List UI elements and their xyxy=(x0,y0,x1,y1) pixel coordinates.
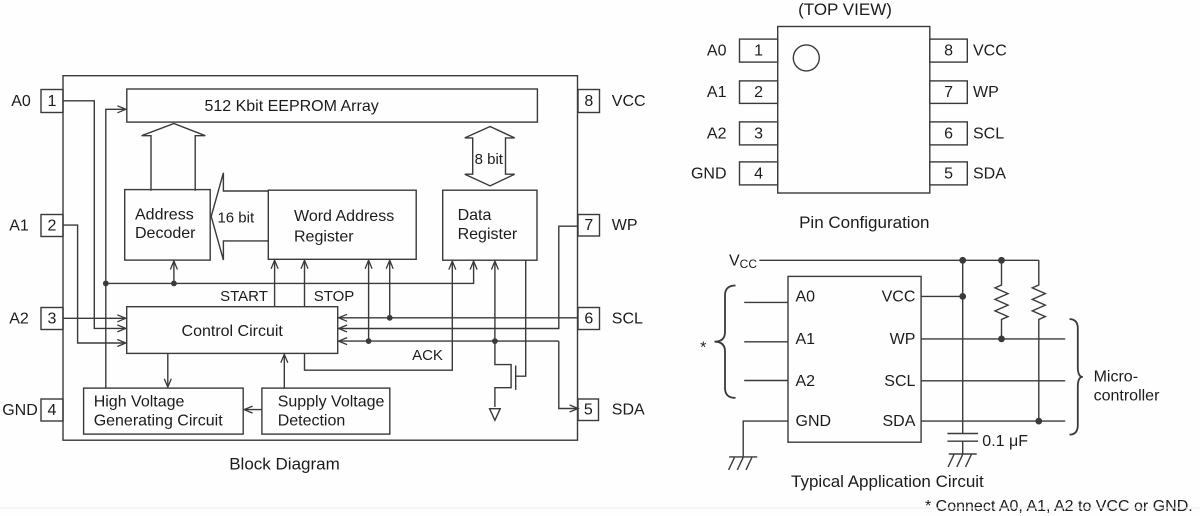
pin 8 box xyxy=(578,90,600,113)
svg-text:4: 4 xyxy=(754,165,763,182)
package pin 8 box xyxy=(930,39,968,62)
wire A0 input stub xyxy=(744,301,788,303)
junction dot WP line resistor R1 xyxy=(998,336,1005,343)
wire SDA pin to microcontroller xyxy=(921,420,1065,422)
svg-text:Block Diagram: Block Diagram xyxy=(229,455,340,474)
junction dot WAR fourth wire xyxy=(387,315,393,321)
svg-text:5: 5 xyxy=(944,165,953,182)
svg-text:6: 6 xyxy=(944,125,953,142)
svg-text:(TOP VIEW): (TOP VIEW) xyxy=(798,0,892,19)
brace microcontroller xyxy=(1070,319,1083,435)
pin 5 box xyxy=(578,399,599,421)
High Voltage Generating Circuit block xyxy=(84,388,244,434)
svg-text:SCL: SCL xyxy=(973,125,1004,142)
pin 3 box xyxy=(41,308,63,330)
svg-text:8 bit: 8 bit xyxy=(475,151,504,168)
junction dot VCC pin line xyxy=(959,293,966,300)
svg-text:2: 2 xyxy=(48,218,57,235)
svg-text:6: 6 xyxy=(584,310,593,327)
pin 1 indicator circle xyxy=(793,45,819,71)
svg-text:SDA: SDA xyxy=(882,413,915,430)
wire address bus into EEPROM Array xyxy=(106,109,126,283)
pin 2 box xyxy=(41,215,63,237)
hollow 16 bit bus arrow to Address Decoder xyxy=(211,173,268,260)
wire WP pin7 to Control Circuit xyxy=(339,226,578,328)
junction dot bus at Address Decoder xyxy=(171,281,177,287)
package pin 7 box xyxy=(930,81,968,104)
svg-text:ACK: ACK xyxy=(412,347,443,364)
wire A1 input stub xyxy=(744,341,788,343)
svg-text:Control Circuit: Control Circuit xyxy=(182,323,284,340)
resistor R2 pull-up SDA xyxy=(1032,260,1045,421)
svg-text:SCL: SCL xyxy=(884,373,915,390)
svg-text:0.1 μF: 0.1 μF xyxy=(982,433,1028,450)
wire Supply Voltage Detection to High Voltage block xyxy=(244,409,262,411)
svg-text:A2: A2 xyxy=(9,311,29,328)
512 Kbit EEPROM Array block xyxy=(127,89,538,122)
svg-text:A1: A1 xyxy=(9,218,29,235)
wire STOP into Word Address Register xyxy=(304,261,306,307)
wire SDA branch to pin5 xyxy=(559,341,578,408)
Address Decoder block xyxy=(125,190,211,261)
block diagram outer boundary xyxy=(63,76,578,441)
svg-text:WP: WP xyxy=(612,217,638,234)
wire SCL pin to microcontroller xyxy=(921,380,1065,382)
wire address bus horizontal to Data Register xyxy=(106,261,474,283)
wire Control Circuit to High Voltage block xyxy=(167,353,169,387)
transistor Q1 drain wire to Data Register xyxy=(516,260,526,376)
svg-text:* Connect A0, A1, A2 to VCC or: * Connect A0, A1, A2 to VCC or GND. xyxy=(925,498,1193,515)
faint page separator xyxy=(0,507,1200,509)
wire VCC pin to rail xyxy=(921,295,963,297)
junction dot SDA transistor gate xyxy=(492,338,498,344)
wire SCL pin6 to Control Circuit xyxy=(339,317,578,319)
svg-text:A2: A2 xyxy=(707,125,727,142)
svg-text:3: 3 xyxy=(754,125,763,142)
svg-text:GND: GND xyxy=(796,413,832,430)
wire WP pin to microcontroller xyxy=(921,338,1065,340)
package pin 3 box xyxy=(740,122,778,145)
wire GND pin to ground xyxy=(743,421,788,457)
wire A2 input stub xyxy=(744,380,788,382)
svg-text:8: 8 xyxy=(944,43,953,60)
svg-text:Data: Data xyxy=(458,207,492,224)
wire bus down to High Voltage block xyxy=(105,283,107,388)
pin 1 box xyxy=(41,90,63,113)
svg-text:VCC: VCC xyxy=(882,288,916,305)
junction dot SDA line resistor R2 xyxy=(1035,418,1042,425)
pin 7 box xyxy=(578,215,600,237)
wire SDA data line into Data Register xyxy=(494,261,496,341)
IC package body top view xyxy=(778,27,930,194)
ground symbol at GND pin xyxy=(729,457,758,470)
svg-text:START: START xyxy=(220,288,268,305)
resistor R1 pull-up WP xyxy=(995,260,1008,339)
junction dot rail resistor R1 xyxy=(998,257,1005,264)
wire A0 pin1 to Control Circuit xyxy=(63,101,126,329)
wire into Word Address Register fourth xyxy=(389,261,391,318)
svg-text:VCC: VCC xyxy=(973,43,1007,60)
svg-text:SCL: SCL xyxy=(612,310,643,327)
ground triangle under transistor xyxy=(490,409,501,421)
svg-text:controller: controller xyxy=(1094,388,1160,405)
svg-text:GND: GND xyxy=(691,165,727,182)
junction dot WAR third wire xyxy=(366,338,372,344)
pin 6 box xyxy=(578,308,600,330)
capacitor C1 plates xyxy=(947,434,978,442)
svg-text:SDA: SDA xyxy=(973,165,1006,182)
svg-text:Detection: Detection xyxy=(278,413,346,430)
ground symbol under capacitor xyxy=(948,454,977,467)
wire capacitor to ground xyxy=(962,441,964,454)
junction dot rail capacitor xyxy=(959,257,966,264)
svg-text:7: 7 xyxy=(944,84,953,101)
svg-text:Word Address: Word Address xyxy=(294,208,394,225)
hollow 8 bit double arrow EEPROM to Data Register xyxy=(465,127,515,186)
svg-text:WP: WP xyxy=(890,331,916,348)
svg-text:Pin Configuration: Pin Configuration xyxy=(799,213,929,232)
package pin 6 box xyxy=(930,122,968,145)
svg-text:Register: Register xyxy=(458,226,518,243)
svg-text:Micro-: Micro- xyxy=(1094,368,1138,385)
svg-text:16 bit: 16 bit xyxy=(217,209,255,226)
svg-text:Generating Circuit: Generating Circuit xyxy=(94,413,224,430)
svg-text:VCC: VCC xyxy=(612,93,646,110)
wire A2 pin3 to Control Circuit xyxy=(63,317,126,319)
svg-text:Decoder: Decoder xyxy=(135,225,196,242)
svg-text:A0: A0 xyxy=(11,93,31,110)
package pin 5 box xyxy=(930,162,968,185)
svg-text:A1: A1 xyxy=(707,84,727,101)
wire VCC rail to capacitor branch xyxy=(962,260,964,433)
svg-text:5: 5 xyxy=(584,402,593,419)
svg-text:A2: A2 xyxy=(796,373,816,390)
svg-text:1: 1 xyxy=(754,43,763,60)
package pin 4 box xyxy=(740,162,778,185)
pin 4 box xyxy=(41,399,63,421)
junction dot bus left xyxy=(103,281,109,287)
svg-text:A0: A0 xyxy=(707,43,727,60)
wire bus into Address Decoder bottom xyxy=(173,261,175,283)
svg-text:WP: WP xyxy=(973,84,999,101)
svg-text:Supply Voltage: Supply Voltage xyxy=(278,394,385,411)
package pin 2 box xyxy=(740,81,778,104)
Supply Voltage Detection block xyxy=(262,388,390,434)
svg-text:Typical Application Circuit: Typical Application Circuit xyxy=(791,472,984,491)
wire A1 pin2 to Control Circuit xyxy=(63,225,126,343)
svg-text:7: 7 xyxy=(584,217,593,234)
transistor Q1 gate wire xyxy=(495,341,511,407)
wire START into Word Address Register xyxy=(274,261,276,307)
Data Register block xyxy=(443,190,537,260)
EEPROM IC box application circuit xyxy=(788,276,921,442)
Word Address Register block xyxy=(268,190,416,259)
svg-text:A0: A0 xyxy=(796,288,816,305)
svg-text:Register: Register xyxy=(294,229,354,246)
transistor Q1 channel bar xyxy=(515,366,517,390)
svg-text:*: * xyxy=(700,340,706,357)
wire ACK from Control Circuit to Data Register xyxy=(305,261,453,370)
svg-text:512 Kbit EEPROM Array: 512 Kbit EEPROM Array xyxy=(204,98,378,115)
wire into Word Address Register third xyxy=(368,261,370,342)
wire Supply Voltage Detection to Control Circuit xyxy=(283,355,285,389)
svg-text:3: 3 xyxy=(48,311,57,328)
svg-text:8: 8 xyxy=(584,93,593,110)
brace grouping A0 A1 A2 xyxy=(715,286,736,398)
svg-text:4: 4 xyxy=(48,402,57,419)
svg-text:A1: A1 xyxy=(796,331,816,348)
svg-text:STOP: STOP xyxy=(314,288,355,305)
svg-text:2: 2 xyxy=(754,84,763,101)
hollow bus arrow Address Decoder to EEPROM Array xyxy=(142,124,206,191)
svg-text:1: 1 xyxy=(48,93,57,110)
svg-text:High Voltage: High Voltage xyxy=(94,394,185,411)
svg-text:SDA: SDA xyxy=(612,402,645,419)
Control Circuit block xyxy=(127,307,338,354)
wire SDA input to Control Circuit xyxy=(339,340,559,342)
svg-text:GND: GND xyxy=(2,402,38,419)
package pin 1 box xyxy=(740,39,778,62)
VCC power rail wire xyxy=(759,259,1039,261)
svg-text:Address: Address xyxy=(135,207,194,224)
